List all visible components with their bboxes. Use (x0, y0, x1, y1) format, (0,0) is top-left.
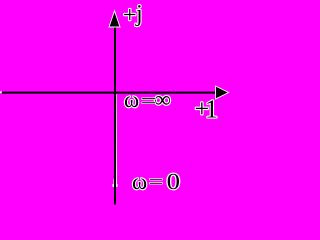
imaginary axis (vertical wire) (114, 24, 116, 205)
svg-text:∞: ∞ (154, 87, 171, 112)
label omega = 0 : equals sign bars (150, 179, 163, 185)
real axis (horizontal wire) (0, 92, 216, 94)
white remnant line right of imaginary axis (curve trace) (116, 94, 117, 187)
svg-text:ω: ω (124, 87, 139, 112)
imaginary axis arrowhead (109, 11, 120, 27)
white remnant line left of imaginary axis (lower part) (113, 179, 114, 187)
svg-text:+j: +j (123, 1, 143, 28)
svg-text:ω: ω (132, 169, 147, 194)
svg-text:+1: +1 (195, 94, 219, 124)
svg-text:0: 0 (167, 169, 180, 194)
white endpoint dots near omega=0 (113, 184, 115, 187)
magenta background (0, 0, 230, 206)
real axis arrowhead (216, 86, 229, 99)
white fill-remnant dot at left end of real axis (0, 91, 2, 93)
label omega = infinity : equals sign bars (142, 98, 156, 104)
